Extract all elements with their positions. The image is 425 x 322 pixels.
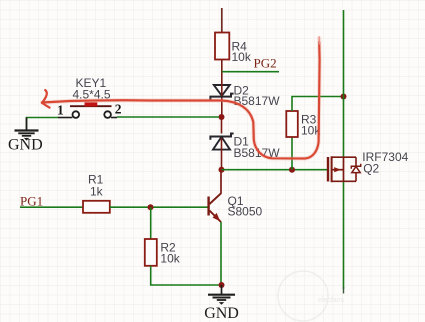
svg-text:10k: 10k	[232, 50, 252, 64]
diode D2 B5817W	[210, 83, 280, 114]
wire: top feed to R4	[221, 8, 223, 33]
wire: KEY1 pin2 to diode node	[117, 116, 219, 118]
wire: KEY1 pin1 to GND corner	[27, 118, 59, 130]
resistor R3	[286, 111, 321, 138]
svg-text:GND: GND	[204, 305, 239, 322]
wire: R1 to Q1 base	[110, 206, 208, 208]
wire: PG1 stub to R1	[20, 206, 83, 208]
svg-text:1k: 1k	[90, 184, 104, 198]
svg-text:2: 2	[115, 102, 122, 117]
wire: gate net (collector to Q2 gate)	[222, 169, 328, 171]
node: emitter/R2/GND junction	[219, 282, 225, 288]
wire: PG2 stub	[222, 71, 279, 73]
wire end tick	[343, 287, 345, 294]
transistor Q1 S8050	[209, 173, 263, 223]
wire: right rail top	[343, 10, 345, 157]
resistor R4	[215, 33, 252, 86]
svg-text:Q2: Q2	[363, 162, 379, 176]
diode D1 B5817W	[210, 120, 280, 168]
node: right rail junction	[341, 94, 347, 100]
wire: right rail bottom	[343, 181, 345, 289]
node: D2/D1/KEY1 junction	[219, 114, 225, 120]
resistor R2	[145, 239, 181, 266]
resistor R1	[83, 172, 110, 212]
svg-text:elecfans: elecfans	[318, 297, 345, 304]
svg-text:10k: 10k	[160, 252, 180, 266]
ground GND (bottom)	[204, 285, 239, 322]
pushbutton KEY1 4.5*4.5	[57, 76, 122, 118]
svg-text:GND: GND	[8, 137, 43, 154]
ground GND (left)	[8, 118, 43, 154]
wire: R3 bottom lead	[291, 137, 293, 170]
wire: R2 bottom to emitter net	[151, 266, 219, 285]
svg-text:PG1: PG1	[20, 194, 43, 209]
svg-text:1: 1	[57, 102, 64, 117]
svg-text:PG2: PG2	[254, 56, 277, 71]
wire: emitter down to ground net	[220, 222, 222, 285]
mosfet Q2 IRF7304	[328, 150, 409, 182]
wire: R3 top to right rail	[292, 97, 344, 112]
svg-text:S8050: S8050	[228, 205, 263, 219]
annotation: red freehand loop with arrow	[42, 37, 320, 159]
node: collector/D1/gate junction	[219, 167, 225, 173]
node: R1/R2/base junction	[148, 204, 154, 210]
wire: junction down to R2	[150, 207, 152, 239]
watermark circle	[278, 271, 345, 321]
node: R3 bottom junction	[289, 167, 295, 173]
